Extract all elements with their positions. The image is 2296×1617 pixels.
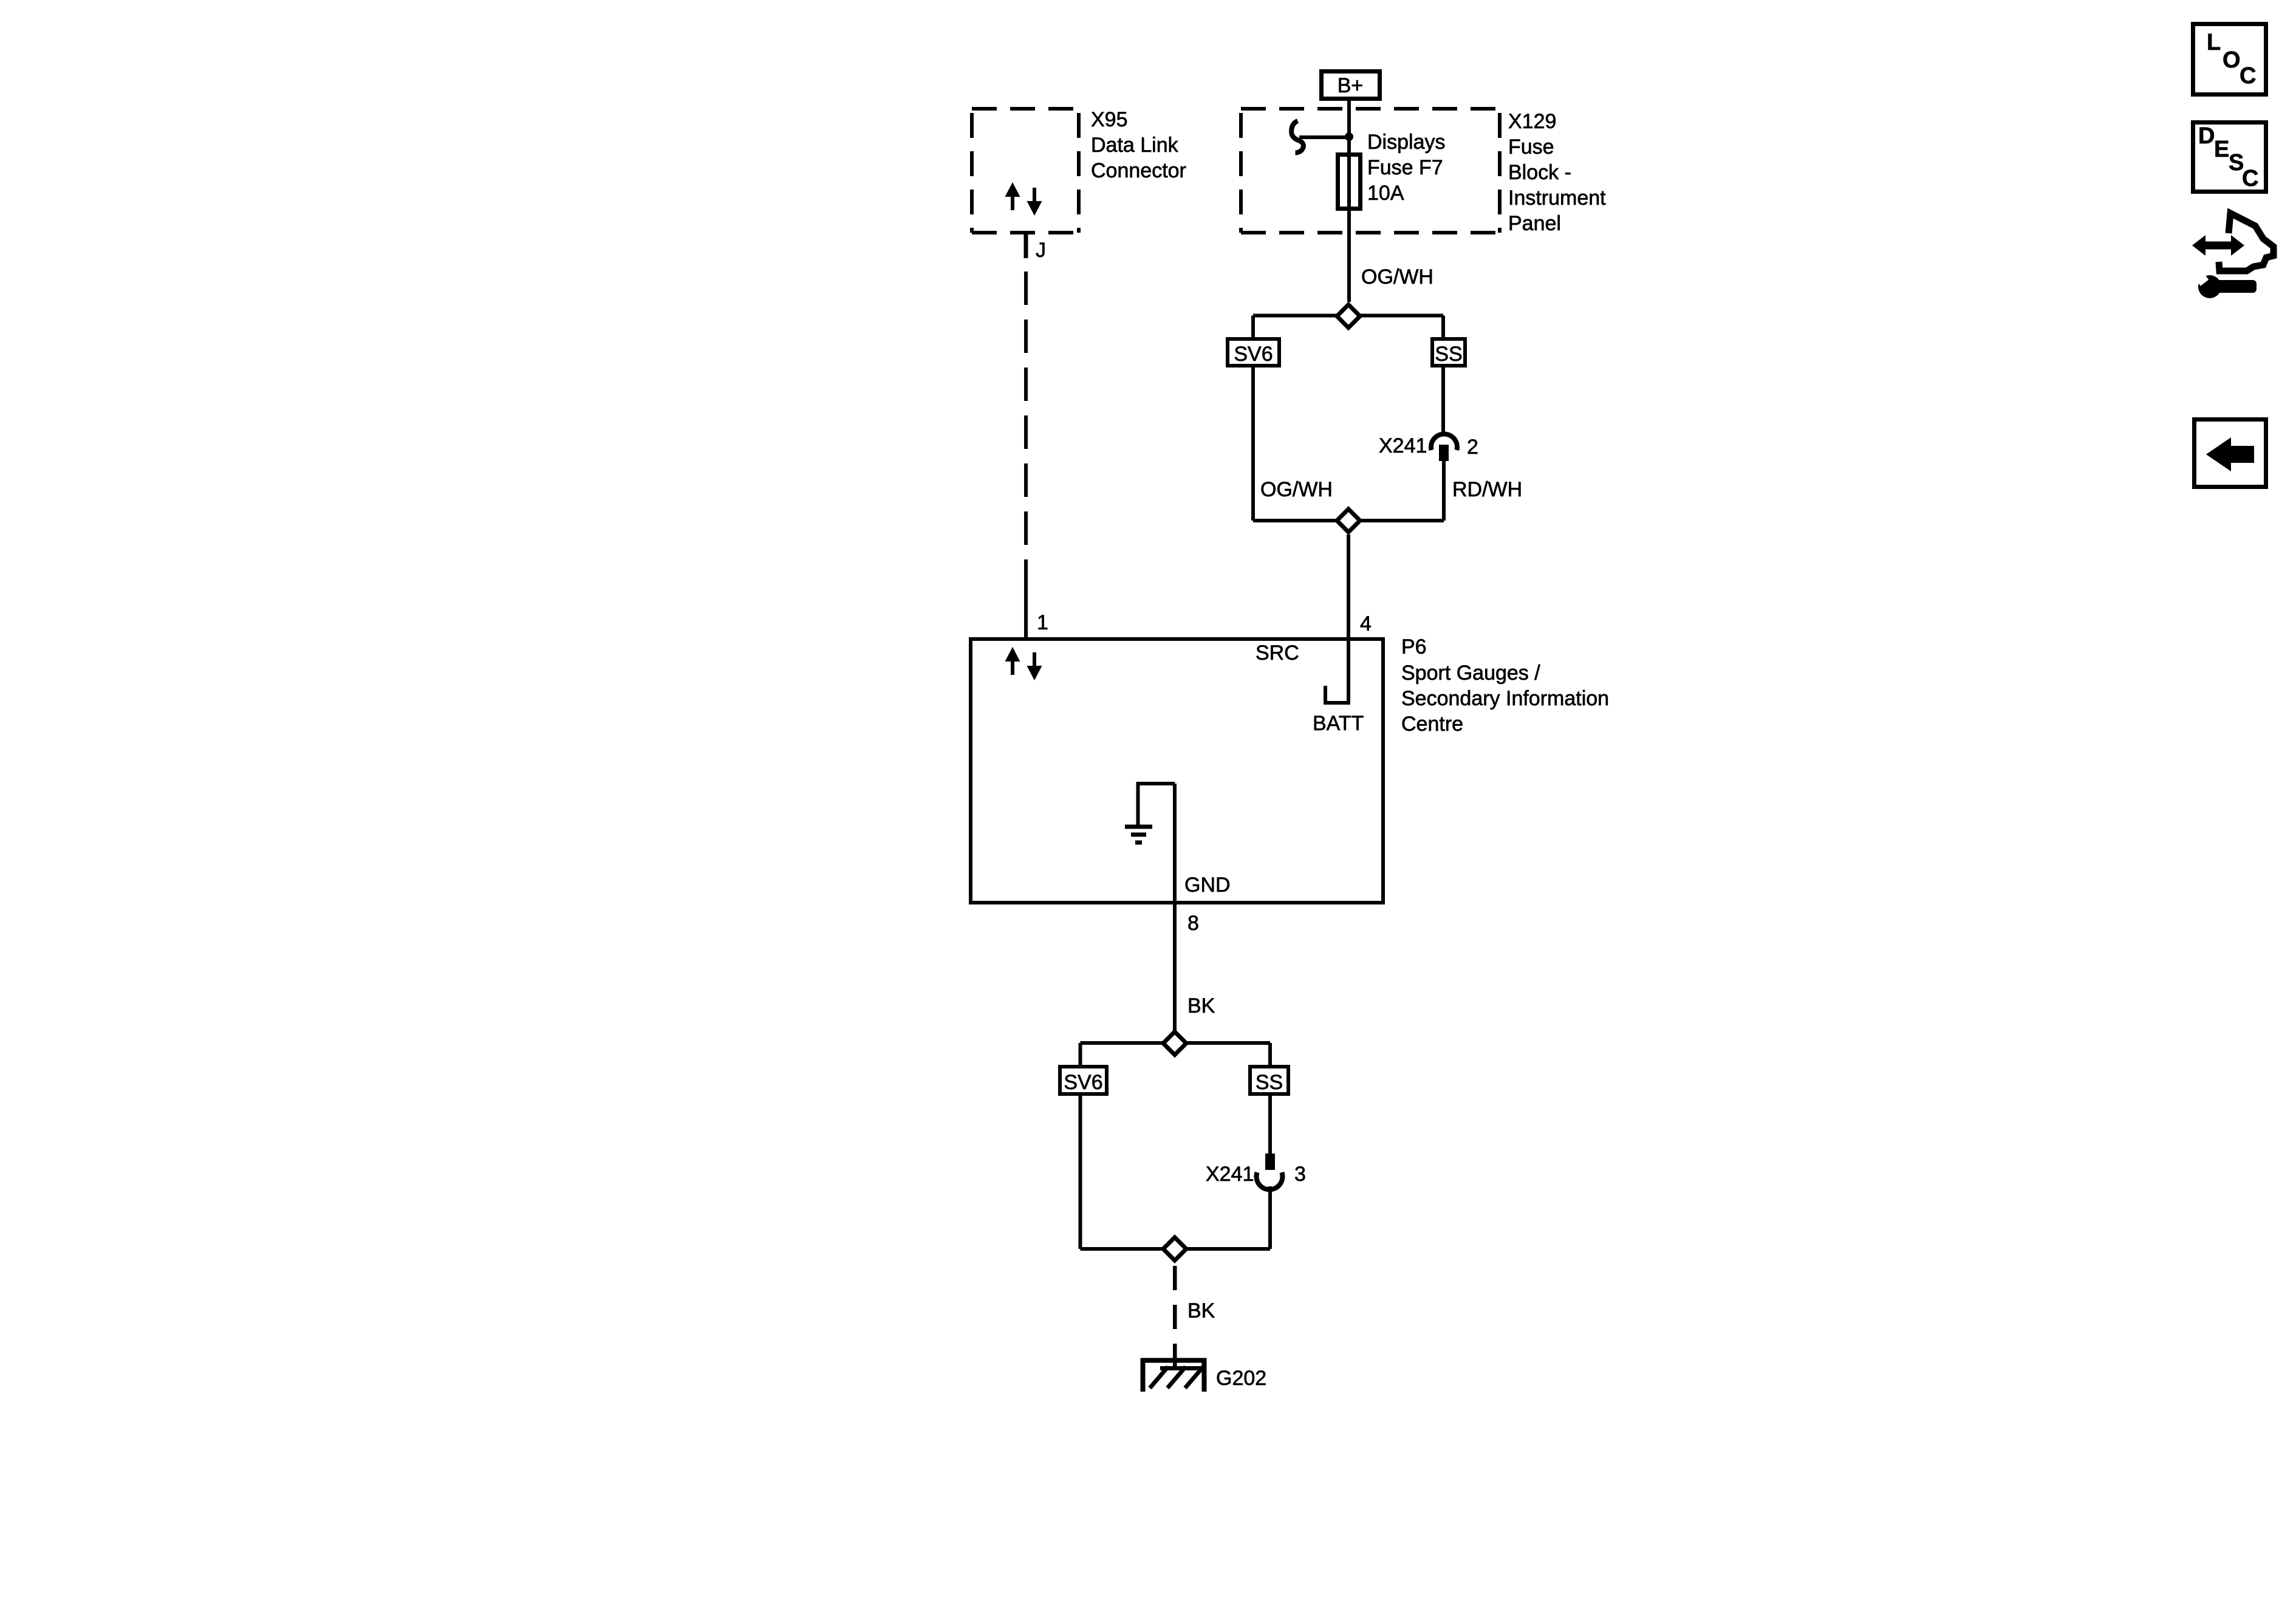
splice crossover horizontal (top) [1253, 314, 1443, 318]
harness code SS box (lower) [1250, 1067, 1288, 1094]
P6 down arrow [1027, 652, 1042, 680]
data link connector X95 dashed box [972, 109, 1079, 233]
svg-text:L: L [2207, 30, 2221, 55]
wire to SS (lower) [1268, 1043, 1272, 1065]
P6 up arrow [1005, 647, 1042, 680]
wire connector to splice (lower) [1268, 1186, 1272, 1249]
dashed data wire X95 to P6 [1024, 272, 1028, 593]
power symbol B+ box [1322, 72, 1380, 99]
sidebar DESC button [2193, 123, 2266, 192]
internal ground symbol [1125, 827, 1152, 843]
sidebar diagnostic icon: double arrow [2192, 235, 2244, 256]
junction node [1345, 132, 1353, 141]
dashed BK wire to ground [1173, 1266, 1177, 1368]
splice diamond (lower top) [1163, 1032, 1186, 1055]
splice diamond (mid) [1337, 509, 1360, 532]
wire to SV6 (lower) [1079, 1043, 1082, 1065]
X95 up arrow [1005, 182, 1042, 216]
svg-text:D: D [2198, 123, 2215, 149]
svg-text:4: 4 [1360, 612, 1372, 635]
svg-text:X241: X241 [1206, 1163, 1254, 1186]
internal ground stub [1138, 784, 1175, 825]
inline connector X241 pin 3 [1265, 1154, 1275, 1170]
svg-text:Data Link: Data Link [1091, 134, 1179, 157]
svg-text:SRC: SRC [1256, 641, 1299, 665]
wire switch to junction [1299, 135, 1349, 139]
svg-text:Fuse F7: Fuse F7 [1367, 156, 1443, 179]
svg-text:C: C [2240, 63, 2256, 89]
svg-text:SS: SS [1256, 1071, 1283, 1094]
svg-text:C: C [2242, 166, 2258, 191]
svg-text:Instrument: Instrument [1508, 186, 1606, 210]
sidebar diagnostic icon: wrench [2193, 270, 2257, 298]
sidebar diagnostic icon: loop arrow [2219, 213, 2274, 271]
svg-text:B+: B+ [1338, 74, 1364, 97]
svg-text:Connector: Connector [1091, 159, 1186, 182]
svg-text:BK: BK [1187, 1299, 1215, 1322]
svg-text:Secondary Information: Secondary Information [1401, 687, 1609, 710]
svg-text:J: J [1036, 239, 1046, 262]
svg-text:Block -: Block - [1508, 161, 1571, 184]
inline connector X241 pin 2 [1431, 434, 1457, 450]
fuse F7 10A [1338, 155, 1361, 209]
wire SS down to connector [1441, 366, 1445, 432]
svg-text:E: E [2214, 137, 2229, 162]
svg-text:O: O [2223, 47, 2241, 73]
svg-text:G202: G202 [1216, 1367, 1266, 1390]
fuse block X129 dashed box [1241, 109, 1500, 233]
splice diamond (top) [1337, 305, 1360, 328]
svg-text:Centre: Centre [1401, 713, 1463, 736]
svg-text:10A: 10A [1367, 182, 1404, 205]
wire to SV6 (top) [1251, 316, 1255, 338]
back arrow [2206, 437, 2254, 471]
pin 4 internal wire [1347, 639, 1350, 703]
BATT pin hook [1325, 686, 1350, 703]
svg-text:OG/WH: OG/WH [1361, 265, 1433, 289]
splice diamond (lowest) [1163, 1237, 1186, 1260]
splice crossover horizontal (lower top) [1081, 1041, 1271, 1045]
svg-text:SS: SS [1435, 343, 1462, 366]
svg-text:3: 3 [1294, 1163, 1306, 1186]
splice crossover horizontal (bottom) [1253, 519, 1444, 522]
svg-text:OG/WH: OG/WH [1260, 478, 1333, 501]
svg-text:SV6: SV6 [1064, 1071, 1102, 1094]
svg-text:RD/WH: RD/WH [1452, 478, 1522, 501]
GND wire inside P6 [1173, 784, 1177, 904]
svg-text:P6: P6 [1401, 635, 1427, 658]
svg-text:BK: BK [1187, 994, 1215, 1017]
sidebar LOC button [2193, 24, 2266, 95]
wire connector to splice [1442, 461, 1446, 521]
svg-text:X241: X241 [1379, 434, 1427, 457]
pin J wire (solid stub) [1024, 233, 1028, 258]
svg-text:Sport Gauges /: Sport Gauges / [1401, 661, 1540, 685]
harness code SV6 box (lower) [1060, 1067, 1107, 1094]
splice crossover horizontal (lowest) [1081, 1247, 1271, 1251]
X95 down arrow [1027, 188, 1042, 216]
svg-text:Displays: Displays [1367, 131, 1445, 154]
wire SS down to connector (lower) [1268, 1094, 1272, 1154]
pin 8 wire [1173, 904, 1177, 1043]
harness code SS box (top) [1432, 339, 1465, 366]
wire splice to P6 pin 4 [1347, 535, 1350, 637]
svg-text:X95: X95 [1091, 108, 1128, 131]
svg-text:X129: X129 [1508, 110, 1556, 133]
wire SV6 down (left branch) [1251, 366, 1255, 521]
harness code SV6 box (top) [1228, 339, 1279, 366]
svg-text:GND: GND [1184, 873, 1231, 897]
ground G202 symbol [1143, 1361, 1204, 1392]
wire to SS (top) [1441, 316, 1445, 338]
svg-text:SV6: SV6 [1234, 343, 1273, 366]
wire SV6 down (lower left) [1079, 1094, 1082, 1249]
svg-text:2: 2 [1467, 436, 1478, 459]
P6 module box [971, 639, 1383, 903]
svg-text:8: 8 [1187, 912, 1199, 935]
svg-text:Fuse: Fuse [1508, 135, 1554, 159]
wire B+ to fuse (vertical feed) [1347, 101, 1351, 302]
switch curl (bus element) [1291, 121, 1303, 153]
svg-text:1: 1 [1037, 611, 1048, 634]
wire into pin 1 [1024, 593, 1028, 637]
svg-text:Panel: Panel [1508, 212, 1561, 235]
sidebar back button [2195, 420, 2266, 487]
svg-text:BATT: BATT [1313, 712, 1364, 735]
